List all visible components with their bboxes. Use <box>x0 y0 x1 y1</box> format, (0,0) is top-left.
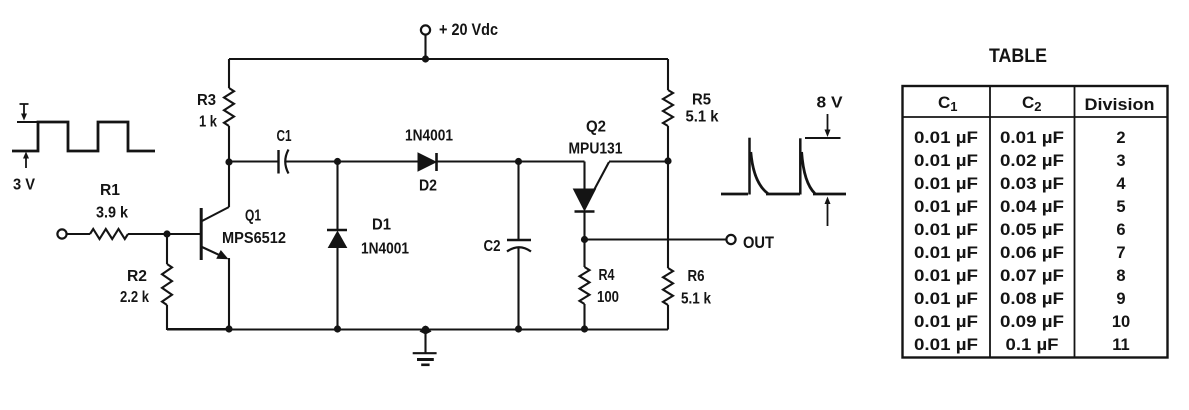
svg-text:6: 6 <box>1116 221 1125 239</box>
svg-text:OUT: OUT <box>743 233 775 252</box>
svg-text:Division: Division <box>1085 95 1155 114</box>
svg-text:1N4001: 1N4001 <box>361 241 409 258</box>
table title <box>989 46 1047 67</box>
table row 7 <box>914 267 1126 285</box>
table row 6 <box>914 244 1126 262</box>
wire bottom rail <box>167 328 668 330</box>
wire R2 top <box>166 234 168 264</box>
resistor R3 <box>197 88 234 131</box>
svg-text:0.01 µF: 0.01 µF <box>914 129 978 147</box>
transistor Q1 MPS6512 <box>201 207 286 260</box>
table row 1 <box>914 129 1126 147</box>
node gate / R5 / R6 <box>664 157 671 164</box>
svg-text:9: 9 <box>1116 290 1125 308</box>
svg-text:3.9 k: 3.9 k <box>96 205 128 222</box>
wire R3 top <box>228 59 230 88</box>
svg-text:MPS6512: MPS6512 <box>222 230 286 247</box>
node C2 bottom <box>515 325 522 332</box>
resistor R5 5.1 k <box>663 90 719 126</box>
wire collector vertical <box>228 162 230 207</box>
svg-text:0.01 µF: 0.01 µF <box>1000 129 1064 147</box>
svg-text:MPU131: MPU131 <box>569 141 623 158</box>
output waveform spikes 8V <box>721 95 846 227</box>
svg-text:4: 4 <box>1116 175 1126 193</box>
table row 5 <box>914 221 1126 239</box>
svg-text:1N4001: 1N4001 <box>405 128 453 145</box>
svg-text:8 V: 8 V <box>817 95 843 112</box>
svg-text:2.2 k: 2.2 k <box>120 289 149 306</box>
svg-text:3 V: 3 V <box>13 177 35 194</box>
node collector / C1 <box>225 158 232 165</box>
wire gate to R5/R6 node <box>609 160 668 162</box>
wire top supply rail <box>229 58 668 60</box>
table row 8 <box>914 290 1126 308</box>
svg-text:R5: R5 <box>692 92 711 109</box>
node R4 bottom <box>581 325 588 332</box>
capacitor C1 <box>277 128 292 174</box>
node emitter bottom <box>225 325 232 332</box>
power terminal + 20 Vdc <box>421 20 498 59</box>
svg-text:1 k: 1 k <box>199 114 217 131</box>
wire input to R1 <box>67 233 90 235</box>
svg-text:D1: D1 <box>372 217 391 234</box>
svg-text:C2: C2 <box>484 238 501 255</box>
wire collector node to C1 <box>229 160 278 162</box>
wire emitter vertical <box>228 258 230 329</box>
resistor R1 3.9 k <box>90 182 128 239</box>
wire R5 bottom to gate node <box>667 126 669 161</box>
capacitor C2 <box>484 162 532 330</box>
svg-text:0.01 µF: 0.01 µF <box>914 198 978 216</box>
svg-text:0.01 µF: 0.01 µF <box>914 290 978 308</box>
output terminal OUT <box>726 233 774 252</box>
wire R5 top <box>667 59 669 90</box>
svg-text:R3: R3 <box>197 92 216 109</box>
svg-text:0.01 µF: 0.01 µF <box>914 313 978 331</box>
table row 9 <box>914 313 1130 331</box>
node supply junction <box>422 55 429 62</box>
diode D2 1N4001 <box>405 128 453 195</box>
svg-text:0.01 µF: 0.01 µF <box>914 221 978 239</box>
svg-text:+ 20 Vdc: + 20 Vdc <box>439 20 498 39</box>
resistor R4 100 <box>580 267 620 306</box>
wire D2 to Q2 anode <box>437 160 585 162</box>
svg-text:0.03 µF: 0.03 µF <box>1000 175 1064 193</box>
svg-text:0.07 µF: 0.07 µF <box>1000 267 1064 285</box>
svg-text:R1: R1 <box>100 182 120 199</box>
table header Division <box>1085 95 1155 114</box>
svg-text:R2: R2 <box>127 268 147 285</box>
table header C1 <box>938 93 958 114</box>
svg-text:Q2: Q2 <box>586 119 606 136</box>
wire R6 bottom corner <box>667 305 669 330</box>
svg-text:8: 8 <box>1116 267 1125 285</box>
wire gate node down to R6 (crosses OUT) <box>667 161 669 268</box>
svg-text:TABLE: TABLE <box>989 46 1047 67</box>
wire R3 bottom to collector node <box>228 126 230 162</box>
svg-text:2: 2 <box>1116 129 1125 147</box>
svg-text:Q1: Q1 <box>245 208 261 225</box>
svg-text:5.1 k: 5.1 k <box>686 109 719 126</box>
svg-text:0.01 µF: 0.01 µF <box>914 267 978 285</box>
ground <box>413 326 437 365</box>
node base / R2 <box>163 230 170 237</box>
table row 4 <box>914 198 1126 216</box>
svg-text:0.01 µF: 0.01 µF <box>914 152 978 170</box>
svg-text:5: 5 <box>1116 198 1125 216</box>
svg-text:100: 100 <box>597 289 619 306</box>
table row 10 <box>914 336 1130 354</box>
wire OUT <box>585 238 727 240</box>
svg-text:D2: D2 <box>419 178 437 195</box>
svg-text:7: 7 <box>1116 244 1125 262</box>
node C2 top <box>515 158 522 165</box>
svg-text:0.05 µF: 0.05 µF <box>1000 221 1064 239</box>
diode D1 1N4001 <box>327 162 409 330</box>
wire R4 top <box>583 240 585 268</box>
node Q2 cathode / R4 / OUT <box>581 236 588 243</box>
svg-text:0.04 µF: 0.04 µF <box>1000 198 1064 216</box>
table frame <box>903 86 1168 358</box>
svg-text:R6: R6 <box>688 268 705 285</box>
input square wave 3V <box>12 104 155 194</box>
svg-text:5.1 k: 5.1 k <box>681 291 711 308</box>
wire R4 bottom <box>583 304 585 329</box>
node D1 top <box>334 158 341 165</box>
transistor Q2 MPU131 <box>569 119 623 240</box>
svg-text:0.01 µF: 0.01 µF <box>914 336 978 354</box>
svg-text:R4: R4 <box>599 267 615 284</box>
wire R2 bottom corner <box>167 305 229 329</box>
svg-text:0.1 µF: 0.1 µF <box>1006 336 1059 354</box>
resistor R6 5.1 k <box>663 268 711 308</box>
svg-text:10: 10 <box>1112 313 1130 331</box>
wire C1 to D1 node <box>286 160 418 162</box>
input terminal <box>57 229 66 238</box>
svg-text:0.09 µF: 0.09 µF <box>1000 313 1064 331</box>
wire R1 to base node <box>128 233 200 235</box>
svg-text:0.01 µF: 0.01 µF <box>914 175 978 193</box>
svg-text:0.08 µF: 0.08 µF <box>1000 290 1064 308</box>
node D1 bottom <box>334 325 341 332</box>
svg-text:C1: C1 <box>277 128 292 145</box>
svg-text:0.01 µF: 0.01 µF <box>914 244 978 262</box>
table row 3 <box>914 175 1126 193</box>
resistor R2 2.2 k <box>120 264 172 306</box>
svg-text:0.06 µF: 0.06 µF <box>1000 244 1064 262</box>
table header C2 <box>1022 93 1042 114</box>
table row 2 <box>914 152 1126 170</box>
svg-text:11: 11 <box>1112 336 1129 354</box>
svg-text:3: 3 <box>1116 152 1125 170</box>
svg-text:0.02 µF: 0.02 µF <box>1000 152 1064 170</box>
